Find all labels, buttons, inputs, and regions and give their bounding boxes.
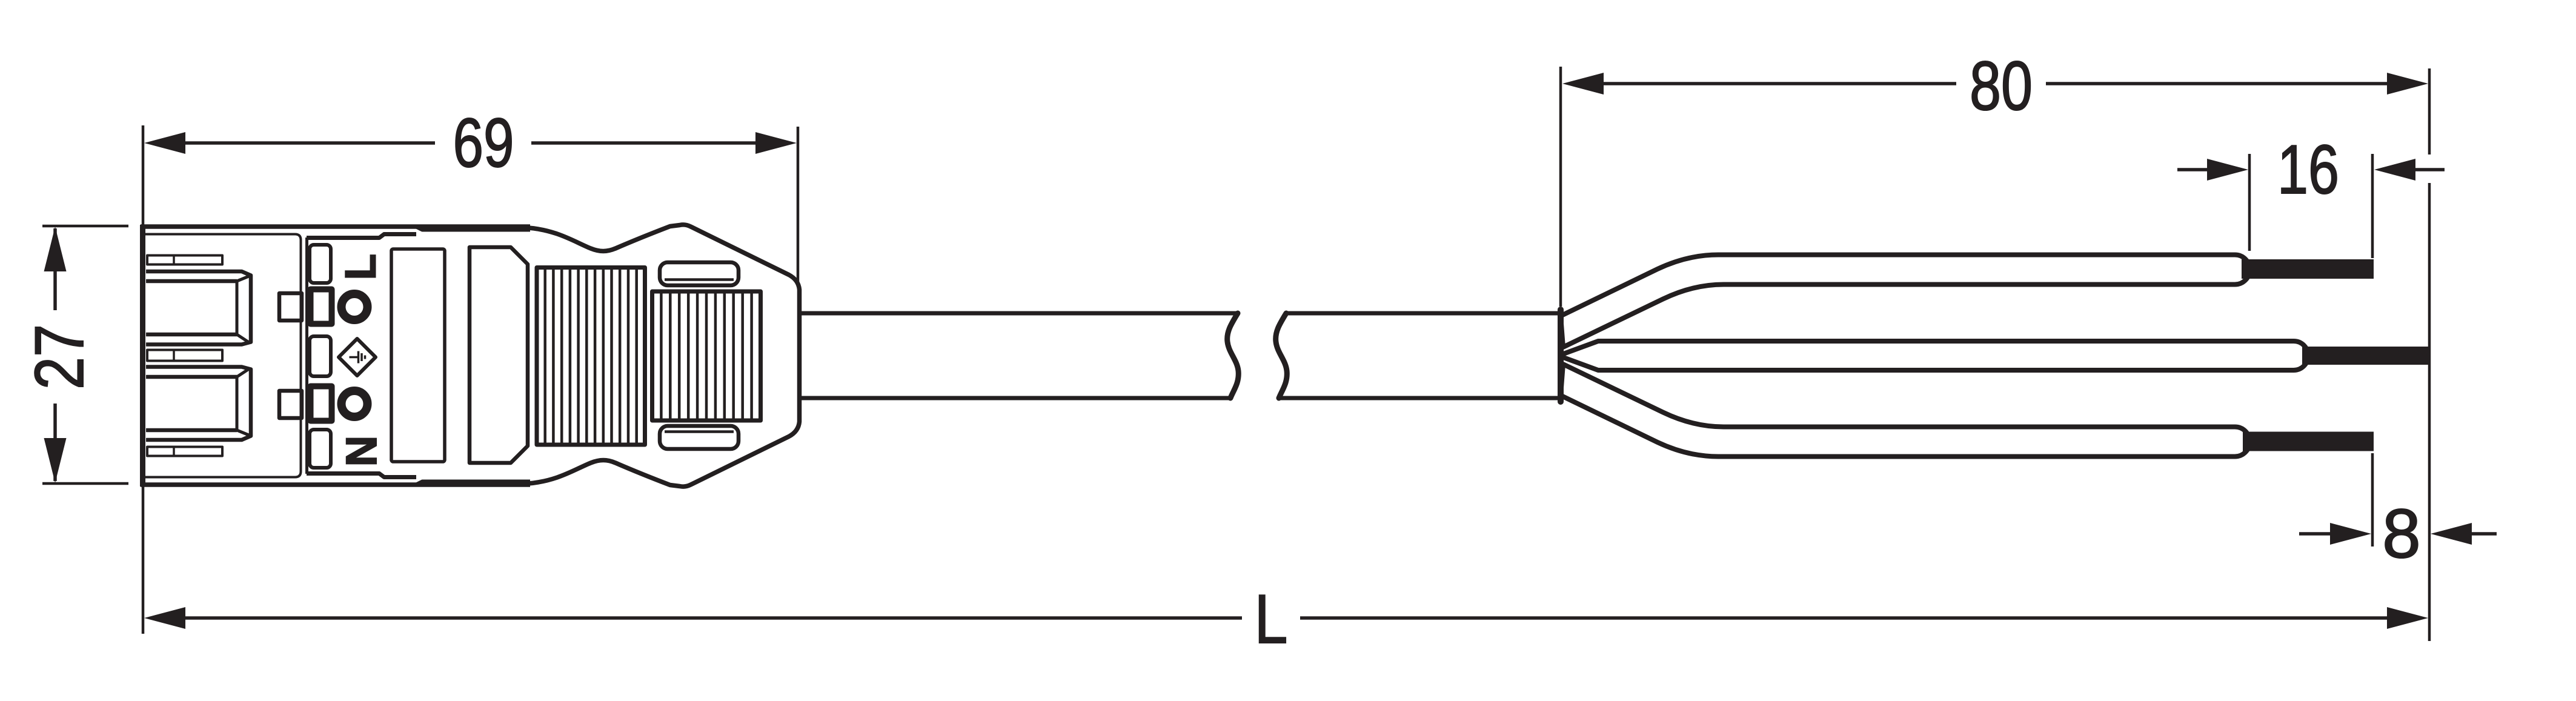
svg-text:69: 69 <box>453 105 514 182</box>
svg-text:27: 27 <box>21 324 98 390</box>
svg-text:L: L <box>1255 581 1288 658</box>
svg-text:N: N <box>338 436 386 467</box>
svg-text:8: 8 <box>2382 496 2420 573</box>
svg-text:80: 80 <box>1970 48 2033 125</box>
svg-text:16: 16 <box>2277 131 2339 208</box>
svg-text:L: L <box>337 254 385 280</box>
